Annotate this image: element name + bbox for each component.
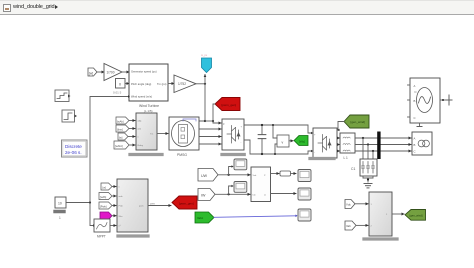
svg-text:[gen_wind]: [gen_wind] <box>410 214 423 218</box>
from tag magenta <box>100 212 112 220</box>
svg-text:Wind speed (m/s): Wind speed (m/s) <box>131 95 152 99</box>
svg-text:[w]: [w] <box>89 71 93 75</box>
wires inverter to L1 <box>337 137 340 139</box>
svg-text:0.01 5: 0.01 5 <box>113 91 122 95</box>
ground <box>364 183 372 185</box>
scope 2 <box>234 182 247 193</box>
scope 3 <box>298 170 311 182</box>
torque module block <box>136 113 157 150</box>
svg-text:[thm]: [thm] <box>117 128 123 132</box>
wire w-to-gain <box>97 71 104 73</box>
from tag [Pwb] <box>99 202 112 209</box>
svg-text:C: C <box>414 150 416 154</box>
svg-text:L 1: L 1 <box>344 156 349 160</box>
label torque module <box>130 153 162 156</box>
wire red tag to converter g <box>213 104 221 123</box>
wire gain2 right <box>196 83 205 85</box>
svg-text:(L 1/5): (L 1/5) <box>144 109 153 113</box>
svg-text:[wAb]: [wAb] <box>117 120 124 124</box>
svg-text:[gen_wind]: [gen_wind] <box>351 120 366 124</box>
dc link capacitor <box>261 125 263 135</box>
from tag stack 4 <box>114 141 129 149</box>
goto tag [pwm_gen] red 2 <box>172 196 197 209</box>
scope 4 <box>298 188 311 200</box>
svg-text:UW: UW <box>201 174 208 178</box>
from tag Vdc2 <box>345 200 355 209</box>
svg-text:[pwm_gen]: [pwm_gen] <box>222 103 237 107</box>
scope 5 <box>298 209 311 221</box>
svg-text:Wind Turbine: Wind Turbine <box>139 104 159 108</box>
from tag [gen_wind] (olive) <box>344 115 369 128</box>
model breadcrumb bar <box>0 0 474 15</box>
svg-text:v: v <box>282 141 284 145</box>
wire to gen_wind goto <box>392 213 404 215</box>
from tag [pwm_gen] (red) <box>215 98 240 111</box>
rate transition pill <box>280 171 291 176</box>
svg-text:2e-06 s.: 2e-06 s. <box>65 150 82 155</box>
C1 capacitor bank block <box>360 159 377 176</box>
svg-text:[wdb]: [wdb] <box>100 195 106 199</box>
svg-text:[w]: [w] <box>119 136 123 140</box>
dc bus - <box>244 140 312 154</box>
svg-text:Pitch angle (deg): Pitch angle (deg) <box>131 82 151 86</box>
wire out1 <box>271 173 280 175</box>
svg-text:Discrete: Discrete <box>65 144 82 149</box>
label grid controller <box>364 237 397 240</box>
three-phase source block <box>410 78 440 123</box>
svg-text:Vabc: Vabc <box>197 216 204 220</box>
svg-text:pwm: pwm <box>139 206 144 208</box>
label controller <box>118 234 148 237</box>
svg-text:10: 10 <box>58 202 62 206</box>
svg-text:IW: IW <box>201 194 206 198</box>
svg-text:[wAbc]: [wAbc] <box>115 144 123 148</box>
wire module to PMSG <box>157 133 168 135</box>
label converter <box>222 153 245 156</box>
signal builder block 1 <box>55 90 69 102</box>
wire gain2 down to PMSG Tm <box>199 84 205 121</box>
wire gain-to-WT <box>122 71 129 73</box>
svg-text:1/700: 1/700 <box>107 71 115 75</box>
from tag [w] <box>88 68 97 76</box>
phase drops to C1 <box>362 137 364 139</box>
scope 1 <box>234 159 247 170</box>
wire wind speed vertical trunk <box>90 97 128 226</box>
MPPT block <box>94 219 110 232</box>
goto tag green 2 <box>195 212 214 223</box>
bus bar B1 <box>377 132 380 160</box>
svg-text:w_pu: w_pu <box>201 54 208 57</box>
wire out2 <box>271 193 297 195</box>
wire pwm out <box>148 205 171 207</box>
wire gen_wind to inverter g <box>338 122 345 131</box>
from tag stack 3 <box>118 133 128 140</box>
svg-text:Generator speed (pu): Generator speed (pu) <box>131 70 157 74</box>
blue signal line <box>214 216 296 218</box>
svg-text:PMSG: PMSG <box>177 153 187 157</box>
wire wind speed to bus <box>66 202 90 204</box>
svg-text:1/752: 1/752 <box>178 82 186 86</box>
svg-text:Rwby: Rwby <box>138 145 144 147</box>
three-phase transformer block <box>412 132 432 155</box>
svg-text:[Pwb]: [Pwb] <box>100 204 107 208</box>
svg-text:A: A <box>414 84 416 88</box>
svg-text:MPPT: MPPT <box>97 235 106 239</box>
svg-text:[Vdc]: [Vdc] <box>299 139 305 143</box>
svg-text:Tm: Tm <box>150 134 153 136</box>
svg-text:-: - <box>314 152 315 155</box>
wires PMSG to converter <box>199 128 221 130</box>
label inverter <box>310 157 334 160</box>
PMSG machine block <box>169 117 199 150</box>
dc bus + <box>244 125 312 133</box>
machine-side converter block <box>222 119 244 150</box>
from tag stack 2 <box>116 125 129 132</box>
goto tag [gen_wind] olive 2 <box>405 210 426 221</box>
source ground stub <box>419 123 421 127</box>
wire to cyan tag <box>204 75 206 84</box>
svg-text:-: - <box>241 141 242 144</box>
from tag IW <box>198 189 215 201</box>
measurement subsystem block <box>251 167 271 202</box>
svg-text:A: A <box>414 137 416 141</box>
C1 to ground <box>363 176 373 178</box>
grid-side inverter block <box>313 128 337 158</box>
svg-text:[w]: [w] <box>103 185 107 189</box>
svg-text:C: C <box>414 116 416 120</box>
machine-side controller block <box>117 179 148 232</box>
svg-text:n²: n² <box>119 225 121 228</box>
svg-text:B: B <box>414 143 416 147</box>
from tag [w] ctrl <box>101 183 112 190</box>
three phase lines <box>355 137 411 139</box>
source neutral output <box>440 99 446 101</box>
goto tag (cyan, down) <box>202 58 212 73</box>
wire IW to subsystem <box>215 193 250 195</box>
constant 0 block <box>116 79 126 89</box>
from tag stack 1 <box>116 117 129 124</box>
from tag [wdb] <box>99 193 112 200</box>
wind turbine block <box>129 64 168 101</box>
vdc measurement block <box>277 135 289 147</box>
svg-text:Vab: Vab <box>346 224 351 228</box>
gain 1/752 <box>168 83 174 85</box>
grid-side controller block <box>369 192 392 236</box>
svg-text:Tm (pu): Tm (pu) <box>157 82 167 86</box>
svg-text:Q: Q <box>264 194 266 196</box>
wire UW to subsystem <box>218 174 250 176</box>
goto tag Vdc (green) <box>289 140 293 142</box>
wire const-to-WT <box>125 83 129 85</box>
from tag Vab2 <box>345 221 356 230</box>
svg-text:N: N <box>415 90 417 94</box>
svg-text:C1: C1 <box>351 167 355 171</box>
svg-text:1: 1 <box>59 216 61 220</box>
svg-text:B: B <box>414 99 416 103</box>
svg-text:pwm: pwm <box>150 202 155 205</box>
gain 1/700 <box>104 64 122 81</box>
svg-text:Vdc: Vdc <box>346 203 351 207</box>
svg-text:Wm: Wm <box>119 216 123 218</box>
svg-text:[pwm_gen]: [pwm_gen] <box>179 201 194 205</box>
wind speed constant block <box>55 197 66 208</box>
step block 2 <box>62 110 75 122</box>
L1 filter block <box>340 133 355 153</box>
from tag UW <box>198 169 218 182</box>
svg-text:0: 0 <box>119 83 121 87</box>
powergui Discrete <box>62 140 88 157</box>
